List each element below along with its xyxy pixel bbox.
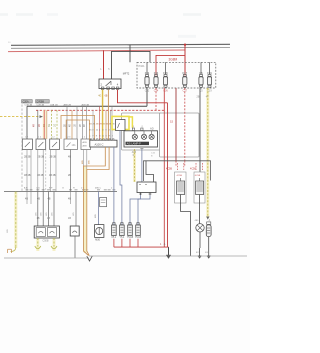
wire bus 15 second line xyxy=(11,46,230,49)
wire resistor to ground xyxy=(208,237,210,248)
fuse box P101 dashed xyxy=(137,62,216,88)
wire black from fuse F32 to bus xyxy=(146,88,148,106)
wire pink highlighted drop to S2 xyxy=(43,110,46,139)
svg-text:A5B: A5B xyxy=(83,144,88,147)
svg-text:2B: 2B xyxy=(197,96,200,99)
striped element 2 xyxy=(196,181,204,195)
wire black bus left xyxy=(27,105,147,107)
wire orange riser 2 xyxy=(66,120,89,140)
svg-text:4C5B: 4C5B xyxy=(177,175,183,177)
blower output dashed wires xyxy=(37,238,39,247)
fuse F36 xyxy=(163,62,168,92)
svg-text:4C5B: 4C5B xyxy=(195,175,201,177)
connector ticks on line xyxy=(26,189,116,191)
component inner box in frame xyxy=(116,120,126,131)
wire red short drop to K100 xyxy=(99,106,101,140)
LB pins xyxy=(140,193,142,196)
svg-text:4B: 4B xyxy=(37,198,40,201)
svg-text:1B 2B: 1B 2B xyxy=(49,174,56,177)
boundary collector line xyxy=(4,191,117,193)
pin tick on lamp wire xyxy=(140,148,143,150)
wire khaki dashed drops to S3 xyxy=(51,110,53,139)
highlight band - lamp box output xyxy=(133,149,136,182)
svg-text:1B 2B: 1B 2B xyxy=(37,174,44,177)
svg-text:J K: J K xyxy=(81,187,85,189)
svg-text:A/5 LAMP-P: A/5 LAMP-P xyxy=(127,142,142,146)
wire red drop to fuse F17 xyxy=(184,45,186,76)
svg-text:4O: 4O xyxy=(44,124,46,127)
wire element2 to clutch xyxy=(199,195,201,224)
wire blue K100 to P1 xyxy=(113,147,115,225)
relay outline box 2 xyxy=(194,172,205,203)
svg-text:4B5 C: 4B5 C xyxy=(95,187,101,189)
wire black drop to S1 xyxy=(26,106,28,139)
connector S5 xyxy=(81,139,91,150)
svg-text:2B: 2B xyxy=(68,174,71,177)
wire red long vertical right A xyxy=(167,103,169,247)
fuse F5 xyxy=(199,62,203,92)
connector box module outer xyxy=(160,113,200,157)
svg-text:G: G xyxy=(62,187,64,189)
svg-text:4Y: 4Y xyxy=(206,96,209,99)
svg-text:3G8M: 3G8M xyxy=(169,57,178,61)
wire black branch to relay and fuse box xyxy=(112,51,151,79)
wire red loop to fuse F34 xyxy=(156,55,185,75)
svg-text:4G: 4G xyxy=(98,95,101,97)
resistor capsule right xyxy=(206,222,211,237)
svg-text:4R: 4R xyxy=(34,124,36,127)
yellow column end arrow xyxy=(206,217,209,220)
svg-text:2B 3B: 2B 3B xyxy=(24,156,31,159)
svg-text:MFT2: MFT2 xyxy=(123,73,130,76)
K100 top pin ticks xyxy=(90,139,92,140)
wire from lamp pin to LB box xyxy=(141,149,143,182)
svg-text:A1B 4B: A1B 4B xyxy=(82,104,90,107)
red stubs to collector xyxy=(113,239,115,247)
connector K100 strip xyxy=(90,140,117,147)
svg-text:A100 C: A100 C xyxy=(95,142,104,146)
svg-text:4B: 4B xyxy=(48,198,51,201)
ground symbol clutch xyxy=(199,248,201,256)
wire black drop x130 xyxy=(129,45,131,63)
svg-text:4C58: 4C58 xyxy=(190,168,196,171)
fuse F19 xyxy=(207,62,212,92)
relay outline box 1 xyxy=(175,172,187,203)
wire blue frame box to P2 xyxy=(120,131,122,225)
ground rail right xyxy=(89,255,247,257)
wire orange from relay xyxy=(107,90,109,141)
wire red feed line xyxy=(8,50,185,52)
svg-text:A1B: A1B xyxy=(83,141,88,144)
red dash stubs pair 1 xyxy=(176,163,178,170)
wire drops to S4 xyxy=(66,106,68,139)
svg-text:C20A: C20A xyxy=(23,101,29,104)
net label box D70B xyxy=(36,100,50,103)
wire red long vertical right B from fuse F36 xyxy=(163,88,165,247)
wire black element1 to ground xyxy=(181,195,191,257)
terminal cups under blower xyxy=(35,246,41,249)
highlight band - far left ground wire xyxy=(14,192,17,249)
connector block LB xyxy=(137,182,156,193)
wire gray drop to K100 xyxy=(111,106,113,140)
wire clutch to ground xyxy=(199,232,201,248)
svg-text:J: J xyxy=(112,136,113,138)
connector Y5.1 xyxy=(120,223,125,240)
control module box xyxy=(144,161,211,181)
ground symbol at red collector xyxy=(168,247,170,255)
compressor clutch lamp symbol xyxy=(195,220,205,232)
svg-text:P101: P101 xyxy=(139,64,146,68)
svg-text:4C5B: 4C5B xyxy=(166,168,172,171)
wire bus 30 top line xyxy=(11,44,230,45)
terminal cup far left xyxy=(8,249,12,253)
svg-text:C2B 4B: C2B 4B xyxy=(25,105,33,107)
svg-text:2B: 2B xyxy=(80,124,82,127)
svg-text:1B: 1B xyxy=(37,217,40,220)
wire black from F5 down xyxy=(199,88,201,172)
node red junction xyxy=(184,44,186,46)
aux feed below line xyxy=(75,192,77,227)
faint header marks xyxy=(0,13,8,16)
wire dark drop to S2 xyxy=(37,110,39,139)
svg-text:A5B 2B: A5B 2B xyxy=(64,104,72,107)
switch S3 xyxy=(50,139,60,150)
switch S1 xyxy=(22,139,32,150)
inline connector on motor wire xyxy=(100,197,107,206)
svg-text:C5B 1B: C5B 1B xyxy=(50,105,58,107)
wire orange riser 1 xyxy=(61,116,95,141)
relay K1 ignition xyxy=(99,73,130,90)
wire yellow highlighted from relay xyxy=(102,90,104,141)
svg-text:4B: 4B xyxy=(25,198,28,201)
svg-text:2R: 2R xyxy=(39,124,41,127)
wire orange pair from K100 to ground xyxy=(84,147,106,256)
highlight band - orange ground pair xyxy=(84,166,87,253)
fuse F34 xyxy=(154,71,159,93)
motor M30 xyxy=(95,225,104,242)
connector F5.1 xyxy=(112,223,117,240)
svg-text:4B: 4B xyxy=(70,124,72,127)
red dash stubs pair 2 xyxy=(195,163,197,170)
wires LB to connectors xyxy=(130,195,141,225)
yellow dashed arrow to other circuit xyxy=(0,116,40,118)
wires below switch row xyxy=(26,150,28,192)
striped element 1 xyxy=(177,181,185,195)
svg-text:2B 3B: 2B 3B xyxy=(38,156,45,159)
wire orange drop xyxy=(46,110,48,139)
svg-text:6B: 6B xyxy=(105,95,108,97)
lamp module label strip xyxy=(126,142,150,145)
connector box cluster (instrument) outer xyxy=(122,113,162,150)
svg-text:C D: C D xyxy=(36,187,40,189)
aux switch ground wire xyxy=(74,236,76,258)
wire blue to motor xyxy=(98,192,100,225)
wire red dashed from F17 to module xyxy=(184,88,186,162)
wire dark red column xyxy=(175,88,177,162)
svg-text:15: 15 xyxy=(170,119,174,123)
fuse F17 xyxy=(183,71,188,93)
highlight band - relay yellow wire xyxy=(101,90,103,141)
ground chevron main xyxy=(87,256,92,261)
lamp L3 xyxy=(149,131,154,139)
ground symbol resistor xyxy=(208,248,210,256)
svg-text:1B: 1B xyxy=(47,217,50,220)
wires below boundary left xyxy=(26,192,28,205)
svg-text:M30: M30 xyxy=(95,239,100,242)
svg-text:4B: 4B xyxy=(68,198,71,201)
wire relay red output to right xyxy=(118,90,168,103)
svg-text:1B: 1B xyxy=(75,124,77,127)
connector Y5.1B xyxy=(135,223,142,240)
aux thermal switch xyxy=(70,226,79,236)
wire gray drop to K100 c xyxy=(110,110,112,140)
wire drops to S5 xyxy=(82,106,84,139)
net label box C20A xyxy=(22,100,33,103)
highlight frame yellow xyxy=(112,116,129,129)
switch S4 wide xyxy=(64,139,77,150)
wire tan short drop to K100 xyxy=(105,110,107,140)
blower resistor unit double box xyxy=(34,226,59,242)
wire red dashed from fuse F34 xyxy=(155,88,157,110)
lamp L2 xyxy=(141,131,146,139)
wire gray drop to K100 b xyxy=(92,110,94,140)
far left dashed ground wire xyxy=(15,192,17,248)
lamp L1 xyxy=(132,131,137,139)
svg-text:4B: 4B xyxy=(84,124,86,127)
svg-text:C2B 4B: C2B 4B xyxy=(37,105,45,107)
wire yellow dashed from F19 down xyxy=(207,88,209,217)
wire yellow dashed from lamp box down xyxy=(134,149,136,182)
red ground collector bus xyxy=(114,246,169,248)
switch S2 xyxy=(36,139,46,150)
highlight band - blower outputs xyxy=(36,238,39,251)
svg-text:1B 2B: 1B 2B xyxy=(24,174,31,177)
svg-text:4B: 4B xyxy=(68,156,71,159)
yellow hook to lamp pin xyxy=(129,117,132,128)
svg-text:D70B8: D70B8 xyxy=(37,101,45,104)
lamp module box xyxy=(124,127,158,147)
wire black jog inside module xyxy=(146,161,154,182)
connector Y5.1B xyxy=(127,223,134,240)
svg-text:A B: A B xyxy=(24,186,28,189)
highlight band - right yellow column xyxy=(206,88,209,218)
wire red dashed bus left xyxy=(36,109,164,111)
svg-text:2B 3B: 2B 3B xyxy=(50,156,57,159)
lamp box top pins xyxy=(132,128,134,131)
svg-text:1F1: 1F1 xyxy=(72,144,77,147)
svg-text:1B: 1B xyxy=(68,217,71,220)
fuse F32 xyxy=(145,62,150,92)
wire red drop to relay xyxy=(103,50,105,79)
svg-text:3G: 3G xyxy=(49,124,51,127)
dashed boundary line left xyxy=(21,105,23,193)
ground rail left xyxy=(4,257,89,259)
svg-text:C50B: C50B xyxy=(43,239,49,242)
svg-text:1G: 1G xyxy=(55,124,57,127)
svg-text:AD: AD xyxy=(150,127,154,131)
